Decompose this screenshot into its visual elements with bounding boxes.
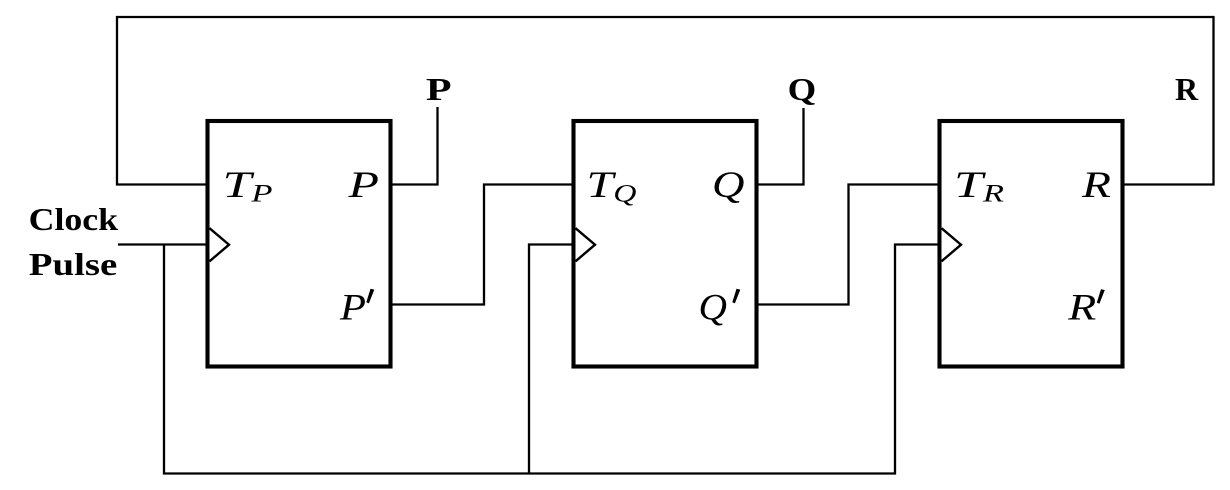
clock edge triangle U1 <box>210 228 230 261</box>
clock edge triangle U2 <box>576 228 596 261</box>
clock edge triangle U3 <box>942 228 962 261</box>
wire clock pulse input to U1 <box>118 243 208 245</box>
svg-text:P: P <box>339 287 366 328</box>
svg-text:R: R <box>1067 287 1096 328</box>
prime mark of P' <box>366 289 374 304</box>
flip-flop U3 box <box>940 121 1123 367</box>
svg-text:Q: Q <box>699 287 728 328</box>
svg-text:R: R <box>1175 72 1199 107</box>
svg-text:Q: Q <box>712 165 745 206</box>
svg-text:Pulse: Pulse <box>29 247 118 282</box>
wire P' output to T_Q input <box>390 185 574 305</box>
wire clock distribution bus (bottom) <box>164 245 940 474</box>
wire feedback net R to T_P (top loop) <box>117 17 1214 185</box>
svg-text:Clock: Clock <box>29 202 119 237</box>
prime mark of Q' <box>732 289 740 304</box>
prime mark of R' <box>1097 289 1105 304</box>
wire Q' output to T_R input <box>756 185 940 305</box>
svg-text:R: R <box>1081 165 1111 206</box>
svg-text:P: P <box>426 72 452 107</box>
wire Q output stub and tap <box>756 108 804 185</box>
svg-text:P: P <box>347 165 379 206</box>
flip-flop U1 box <box>208 121 391 367</box>
flip-flop U2 box <box>574 121 757 367</box>
wire clock branch to U2 <box>529 245 574 474</box>
wire P output stub and tap <box>390 107 438 185</box>
svg-text:Q: Q <box>788 72 817 107</box>
